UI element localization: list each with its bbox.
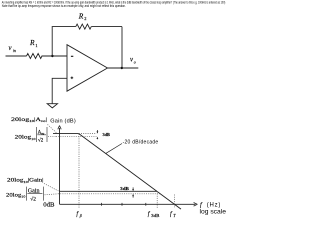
dotted fT vertical [173,195,175,209]
wire noninverting input [52,78,67,103]
op-amp U1 [67,45,108,91]
tick 3 [145,203,147,206]
svg-text:log scale: log scale [200,208,227,215]
svg-text:o: o [134,60,136,65]
svg-text:3dB: 3dB [151,213,160,218]
svg-text:(Hz): (Hz) [207,202,221,208]
leader dotted Avo sqrt2 [48,136,56,138]
svg-text:3dB: 3dB [103,132,110,137]
resistor R2 [76,24,92,29]
line Gain level solid [60,190,158,192]
svg-text:Gain (dB): Gain (dB) [50,119,76,125]
leader dotted Avo [48,125,57,133]
svg-text:in: in [13,48,16,53]
dotted f3dB vertical [156,191,158,208]
wire R1 to op-amp [42,55,68,57]
svg-text:β: β [79,214,82,218]
wire feedback top right [91,26,122,28]
axis y arrowhead [58,126,61,130]
leader dotted Gain sqrt2 [45,194,59,195]
svg-text:R: R [29,38,35,47]
svg-text:0dB: 0dB [43,202,54,208]
node vo label [130,56,136,64]
tick 2 [121,203,123,206]
svg-text:20log10: 20log10 [6,192,26,198]
node vin label [9,45,16,53]
label f T [170,210,176,218]
svg-text:-20 dB/decade: -20 dB/decade [123,139,159,145]
label R1 [29,38,38,48]
line AM level solid [53,133,79,135]
svg-text:Note that the op-amp frequency: Note that the op-amp frequency response … [2,4,126,8]
label f beta [76,210,81,218]
svg-text:2: 2 [84,16,86,21]
label f 3dB [148,210,160,218]
svg-text:R: R [78,11,84,20]
wire feedback right vertical [121,27,123,68]
svg-text:20log10|Gain|: 20log10|Gain| [7,178,44,184]
axis x arrowhead [194,203,198,207]
wire feedback top left [52,26,76,28]
label R2 [78,11,87,21]
node output junction [121,67,123,69]
svg-text:20log10: 20log10 [15,135,36,141]
annotation 3dB upper arrow [97,130,99,139]
pin plus [71,77,74,80]
ground [47,104,57,108]
tick 1 [101,203,103,206]
dotted fbeta vertical [78,134,80,208]
wire input [6,55,27,57]
wire feedback left vertical [51,27,53,56]
label 20log10 Gain over sqrt2 [6,187,44,203]
svg-text:f: f [200,201,203,208]
annotation 3dB lower arrows [132,187,134,197]
svg-text:1: 1 [35,43,37,48]
leader dotted Gain [44,184,59,192]
svg-text:3dB: 3dB [120,186,129,191]
axis x [60,203,196,205]
svg-text:T: T [173,214,176,218]
line Gain sqrt2 dotted [58,193,160,195]
resistor R1 [27,54,43,59]
pin minus [71,55,73,57]
svg-text:20log10|Avo|: 20log10|Avo| [11,117,47,123]
label 20log10 Avo over sqrt2 [15,127,47,143]
annotation -20dB/decade leader [106,144,122,154]
svg-text:√2: √2 [30,195,36,202]
svg-text:√2: √2 [38,137,44,143]
line slope -20dB/decade [79,134,181,210]
wire output [108,67,139,69]
line AM dotted extension [79,133,97,135]
node junction inverting input [51,55,53,57]
axis y [59,128,61,204]
line AM sqrt2 dotted [56,136,97,138]
